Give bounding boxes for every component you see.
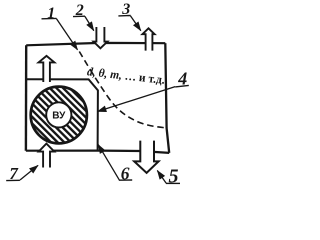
- dashed arc boundary (node 1): [79, 52, 165, 128]
- hollow arrow 2 (down, through top edge): [94, 27, 108, 48]
- svg-text:ВУ: ВУ: [52, 111, 66, 122]
- inner chamber wall (top edge, chamfer, right edge): [26, 79, 98, 150]
- leader 2: [85, 16, 94, 30]
- svg-text:5: 5: [169, 166, 179, 188]
- leader 5: [157, 171, 166, 184]
- leader 1: [56, 19, 77, 50]
- wire: outer box left edge: [25, 45, 28, 150]
- wire: outer box right edge: [165, 43, 169, 153]
- wire: outer box bottom edge: [26, 151, 169, 153]
- hollow arrow 7 (up, through bottom edge): [39, 144, 55, 168]
- hollow arrow (up, inside box top-left): [39, 56, 55, 82]
- inner circle (white core): [46, 102, 71, 127]
- hollow arrow 5 (big, down, through bottom edge): [134, 141, 158, 173]
- leader 4: [98, 87, 176, 112]
- wire: outer box top edge: [26, 43, 165, 45]
- leader 6: [98, 145, 119, 180]
- hatched annulus (element ВУ): [31, 86, 88, 144]
- leader 7: [20, 165, 38, 180]
- leader 3: [130, 16, 140, 31]
- hollow arrow 3 (up, through top edge): [142, 28, 154, 50]
- svg-text:1: 1: [47, 5, 55, 22]
- outer circle rim: [31, 87, 87, 144]
